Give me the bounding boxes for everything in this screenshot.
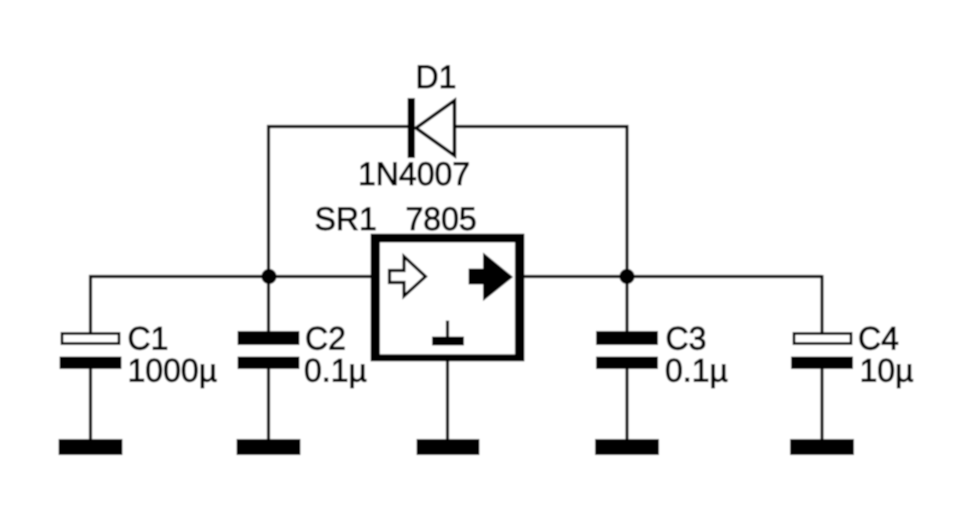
wire diode rail left segment	[267, 125, 410, 128]
wire C4 top lead	[820, 275, 823, 333]
wire right riser to diode rail	[625, 125, 628, 278]
svg-text:0.1µ: 0.1µ	[665, 353, 728, 389]
wire C2 top lead	[267, 275, 270, 333]
ground under C2	[237, 439, 301, 455]
svg-text:10µ: 10µ	[860, 353, 914, 389]
node input junction (C2 / diode anode rail)	[261, 269, 276, 284]
svg-text:SR1: SR1	[315, 201, 377, 237]
capacitor C4 bottom plate	[791, 357, 853, 370]
diode D1 triangle	[416, 101, 455, 156]
wire C2 bottom lead	[267, 368, 270, 441]
diode D1 cathode bar	[408, 98, 416, 158]
capacitor C2 top plate	[238, 331, 300, 345]
wire C4 bottom lead	[820, 368, 823, 441]
wire C3 bottom lead	[625, 368, 628, 441]
wire diode rail right segment	[454, 125, 629, 128]
svg-text:1000µ: 1000µ	[128, 353, 218, 389]
regulator SR1 input arrow (outline)	[390, 257, 426, 297]
wire left riser to diode rail	[267, 125, 270, 278]
op-amp/regulator SR1 7805 body	[371, 234, 525, 362]
svg-text:C4: C4	[858, 321, 899, 357]
capacitor C2 bottom plate	[238, 357, 300, 370]
node output junction (C3 / diode cathode rail)	[619, 269, 634, 284]
capacitor C1 bottom plate	[60, 357, 122, 370]
wire C3 top lead	[625, 275, 628, 333]
regulator SR1 output arrow (solid)	[470, 255, 512, 300]
ground under C1	[59, 439, 123, 455]
wire main output rail right segment	[520, 275, 822, 278]
regulator SR1 internal ground symbol bar	[432, 337, 464, 346]
wire regulator ground pin	[446, 359, 449, 441]
svg-text:D1: D1	[416, 59, 457, 95]
capacitor C1 top plate (polarized, hollow)	[62, 334, 119, 344]
svg-text:1N4007: 1N4007	[358, 156, 470, 192]
regulator SR1 internal ground symbol stem	[446, 321, 449, 339]
capacitor C3 bottom plate	[596, 357, 658, 370]
svg-text:7805: 7805	[406, 201, 477, 237]
wire C1 top lead	[89, 275, 92, 333]
ground under C4	[790, 439, 854, 455]
ground under regulator SR1	[417, 439, 480, 455]
wire main input rail left segment	[89, 275, 374, 278]
svg-text:C2: C2	[305, 321, 346, 357]
capacitor C3 top plate	[596, 331, 658, 345]
ground under C3	[595, 439, 659, 455]
svg-text:C3: C3	[666, 321, 707, 357]
wire C1 bottom lead	[89, 368, 92, 441]
svg-text:0.1µ: 0.1µ	[304, 353, 367, 389]
capacitor C4 top plate (polarized, hollow)	[794, 334, 851, 344]
svg-text:C1: C1	[128, 321, 169, 357]
